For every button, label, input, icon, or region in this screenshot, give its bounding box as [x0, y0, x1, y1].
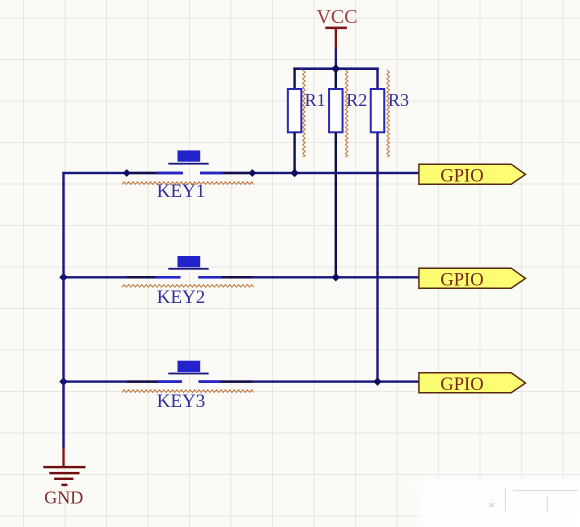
resistor R2 — [329, 89, 343, 132]
ground GND — [43, 448, 85, 487]
power port VCC — [316, 6, 357, 49]
wire key row 1 (right segment to port) — [200, 172, 419, 174]
junction node VCC/bus — [331, 64, 340, 73]
junction node R2/row2 — [332, 273, 340, 281]
pushbutton KEY3 — [158, 361, 221, 383]
wire key row 3 (left segment) — [62, 380, 182, 382]
pushbutton KEY2 — [156, 256, 223, 279]
svg-text:VCC: VCC — [316, 6, 357, 28]
port GPIO (row 2) — [419, 268, 526, 290]
port GPIO (row 1) — [419, 164, 526, 186]
wire KEY3 contact leads — [127, 380, 253, 382]
ERC squiggle KEY1 row — [122, 182, 254, 185]
ERC squiggle KEY2 row — [122, 285, 254, 288]
svg-text:KEY2: KEY2 — [157, 287, 206, 308]
wire VCC stem — [335, 49, 337, 69]
ERC squiggle R2 net — [345, 70, 348, 157]
svg-text:GPIO: GPIO — [440, 375, 483, 395]
junction node R3/row3 — [373, 377, 381, 385]
wire R1 top branch — [293, 68, 295, 90]
svg-text:KEY1: KEY1 — [157, 181, 206, 202]
ERC squiggle R1 net — [303, 70, 306, 157]
wire key row 2 (left segment) — [62, 276, 180, 278]
wire R3 bottom branch — [376, 132, 378, 382]
svg-text:R2: R2 — [346, 90, 367, 110]
svg-text:GPIO: GPIO — [440, 166, 483, 186]
svg-text:GPIO: GPIO — [440, 270, 483, 290]
wire R1 bottom branch — [293, 132, 295, 174]
junction node KEY1 pin 1 — [123, 169, 131, 177]
pushbutton KEY1 — [157, 150, 223, 174]
junction node bus/row3 — [59, 377, 67, 385]
wire R2 top branch — [335, 69, 337, 89]
svg-text:KEY3: KEY3 — [157, 391, 206, 412]
wire R3 top branch — [376, 68, 378, 90]
svg-text:R1: R1 — [305, 90, 326, 110]
svg-text:GND: GND — [44, 488, 83, 508]
svg-text:R3: R3 — [388, 90, 409, 110]
ERC squiggle KEY3 row — [122, 390, 254, 393]
wire pull-up bus (horizontal) — [293, 67, 379, 70]
junction node KEY1 pin 2 — [248, 169, 256, 177]
resistor R1 — [288, 89, 302, 132]
wire KEY2 contact leads — [127, 276, 253, 278]
ERC squiggle R3 net — [387, 70, 390, 157]
junction node R1/row1 — [290, 169, 298, 177]
junction node bus/row2 — [59, 273, 67, 281]
port GPIO (row 3) — [419, 373, 526, 395]
resistor R3 — [371, 89, 385, 132]
wire left ground bus — [62, 172, 64, 448]
wire R2 bottom branch — [335, 132, 337, 278]
wire key row 1 (left segment) — [62, 172, 183, 174]
wire key row 3 (right segment to port) — [199, 380, 419, 382]
wire key row 2 (right segment to port) — [198, 276, 418, 278]
watermark — [420, 480, 580, 527]
wire KEY1 contact leads — [127, 172, 253, 174]
